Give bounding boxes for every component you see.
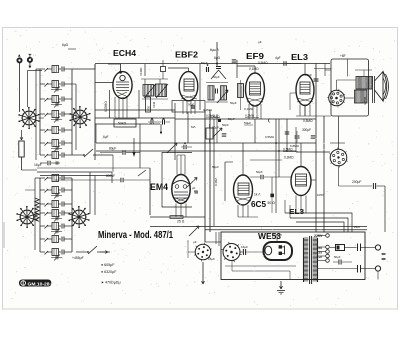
svg-text:200μF: 200μF (352, 180, 361, 184)
svg-text:220V: 220V (314, 234, 323, 238)
svg-text:50μF: 50μF (212, 165, 219, 169)
svg-text:μF: μF (193, 240, 197, 244)
svg-text:V05MΩ: V05MΩ (104, 101, 108, 112)
svg-text:50μF: 50μF (188, 103, 195, 107)
svg-text:EL3: EL3 (291, 53, 309, 62)
svg-text:0,5MΩ: 0,5MΩ (265, 135, 275, 139)
svg-text:125: 125 (317, 251, 322, 255)
svg-text:50pF: 50pF (228, 117, 235, 121)
svg-text:GM 10-28: GM 10-28 (28, 281, 51, 286)
svg-text:300μF: 300μF (302, 128, 311, 132)
svg-text:θμω Λ: θμω Λ (210, 48, 220, 52)
svg-text:V1MΩ: V1MΩ (139, 67, 143, 76)
svg-text:MΛ: MΛ (191, 125, 196, 129)
svg-text:0,5MΩ: 0,5MΩ (245, 114, 255, 118)
svg-text:V1M: V1M (152, 101, 156, 108)
svg-text:0,1MΩ: 0,1MΩ (249, 67, 259, 71)
svg-text:50 Ω: 50 Ω (268, 201, 276, 205)
svg-text:ECH4: ECH4 (113, 49, 137, 58)
svg-text:150: 150 (317, 246, 322, 250)
svg-text:0,1MΩ: 0,1MΩ (203, 108, 213, 112)
svg-text:50pF: 50pF (222, 123, 229, 127)
svg-text:+455μF: +455μF (72, 256, 84, 260)
svg-text:50μF: 50μF (201, 61, 208, 65)
svg-text:25 Ω: 25 Ω (177, 220, 185, 224)
svg-text:EBF2: EBF2 (175, 51, 199, 60)
svg-text:105Λ: 105Λ (317, 193, 324, 197)
svg-text:0,5MΩ: 0,5MΩ (283, 148, 293, 152)
svg-text:16μF: 16μF (241, 245, 248, 249)
svg-text:16μF: 16μF (34, 163, 42, 167)
svg-text:V'05Ω: V'05Ω (363, 96, 367, 105)
svg-text:1k Λ: 1k Λ (254, 193, 261, 197)
svg-text:WE53: WE53 (258, 232, 282, 241)
svg-text:● 6320μF: ● 6320μF (101, 270, 117, 274)
svg-text:50μF: 50μF (213, 75, 220, 79)
svg-text:EF9: EF9 (246, 52, 265, 61)
svg-text:50μF: 50μF (244, 121, 251, 125)
svg-text:4μF: 4μF (275, 56, 281, 60)
svg-text:EM4: EM4 (150, 182, 168, 192)
svg-text:0,5MΩ: 0,5MΩ (303, 119, 313, 123)
svg-text:25Ω: 25Ω (354, 225, 360, 229)
svg-text:800μF: 800μF (106, 174, 115, 178)
svg-text:μF: μF (258, 40, 262, 44)
svg-text:80μF: 80μF (109, 147, 116, 151)
svg-text:0,1MΩ: 0,1MΩ (244, 107, 254, 111)
svg-text:Minerva - Mod. 487/1: Minerva - Mod. 487/1 (98, 230, 173, 241)
svg-text:50μF: 50μF (230, 101, 237, 105)
svg-text:● 605μF: ● 605μF (101, 263, 115, 267)
svg-text:0,5MΩ: 0,5MΩ (258, 61, 268, 65)
svg-text:110: 110 (317, 255, 322, 259)
svg-text:50pF: 50pF (256, 170, 263, 174)
svg-text:6μΩ: 6μΩ (62, 43, 69, 47)
svg-text:6μF: 6μF (103, 135, 109, 139)
svg-text:V05: V05 (147, 106, 151, 111)
svg-text:50kΩ: 50kΩ (118, 122, 127, 126)
svg-text:+8F: +8F (340, 54, 346, 58)
svg-text:0,1MΛ: 0,1MΛ (214, 178, 218, 186)
svg-text:16μF: 16μF (208, 257, 215, 261)
svg-text:6,8MΩ: 6,8MΩ (210, 115, 220, 119)
svg-text:μF: μF (192, 186, 196, 190)
svg-text:50μF: 50μF (334, 255, 341, 259)
svg-text:EL3: EL3 (289, 209, 304, 216)
svg-text:6C5: 6C5 (251, 199, 266, 209)
svg-text:0,3MΩ: 0,3MΩ (284, 156, 294, 160)
svg-text:➤ 470ΩμΩμ: ➤ 470ΩμΩμ (101, 281, 121, 285)
